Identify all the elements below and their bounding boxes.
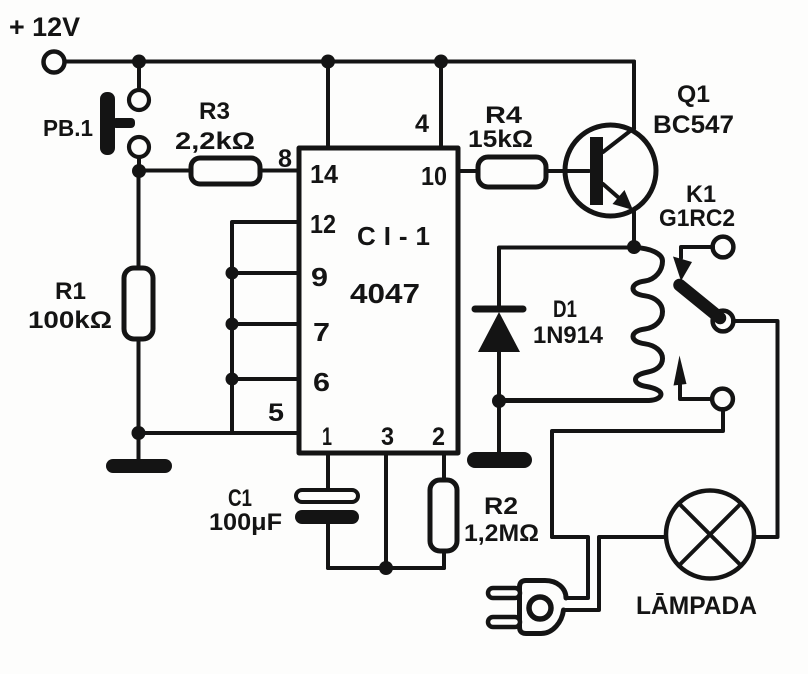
ground diode — [467, 401, 532, 468]
svg-text:7: 7 — [313, 317, 330, 347]
svg-text:R4: R4 — [485, 102, 523, 129]
junction dot bus pin9 — [226, 267, 239, 280]
relay armature — [680, 285, 721, 318]
svg-text:4: 4 — [415, 110, 429, 138]
diode D1 — [475, 248, 604, 401]
junction dot PB.1 bottom / R1 top — [132, 164, 146, 178]
junction dot pin3 bottom — [379, 561, 393, 575]
svg-text:2: 2 — [432, 423, 445, 451]
svg-text:3: 3 — [381, 423, 394, 451]
wire emitter down — [632, 211, 636, 247]
junction dot R1 bottom — [132, 426, 146, 440]
svg-text:9: 9 — [311, 262, 328, 292]
resistor R3 — [139, 98, 299, 184]
junction dot pin4 stub — [434, 55, 448, 69]
wire pin 3 — [384, 455, 388, 568]
relay K1 coil — [499, 181, 735, 401]
svg-text:100kΩ: 100kΩ — [28, 307, 112, 334]
junction dot diode bottom — [492, 394, 506, 408]
wire coil bottom run — [499, 399, 651, 403]
relay common contact (middle) — [713, 311, 734, 332]
wire NO contact to mains left — [552, 409, 723, 537]
svg-text:K1: K1 — [686, 181, 716, 208]
wire top supply rail — [65, 60, 634, 64]
svg-text:10: 10 — [421, 161, 447, 191]
svg-text:5: 5 — [268, 399, 284, 427]
wire lamp left / cable left edge — [552, 537, 588, 598]
svg-text:1: 1 — [322, 423, 332, 451]
wire bottom run — [328, 566, 444, 570]
junction dot PB.1 top — [132, 55, 146, 69]
svg-text:12: 12 — [310, 209, 336, 239]
svg-text:8: 8 — [278, 145, 292, 173]
resistor R1 — [28, 171, 153, 433]
svg-text:1,2MΩ: 1,2MΩ — [464, 520, 539, 547]
wire common contact to lamp right — [733, 321, 778, 537]
op-amp U1: IC CI-1 4047 box — [299, 148, 458, 453]
resistor R4 — [458, 102, 589, 187]
svg-text:4047: 4047 — [350, 278, 420, 309]
svg-text:100μF: 100μF — [209, 509, 282, 536]
svg-text:R3: R3 — [199, 98, 230, 125]
wire collector to rail — [632, 62, 636, 130]
svg-text:6: 6 — [313, 367, 330, 397]
terminal +12V — [44, 52, 65, 73]
wire cable right edge to lamp — [563, 537, 666, 610]
junction dot IC top stub — [321, 55, 335, 69]
svg-text:+ 12V: + 12V — [9, 12, 80, 42]
wire pin5 / ground run — [139, 431, 300, 435]
junction dot emitter node — [627, 240, 641, 254]
capacitor C1 — [209, 455, 359, 568]
relay contact NO (bottom) — [674, 356, 733, 410]
svg-text:R2: R2 — [484, 493, 518, 520]
svg-text:2,2kΩ: 2,2kΩ — [175, 128, 255, 155]
svg-text:1N914: 1N914 — [533, 322, 604, 349]
svg-text:C1: C1 — [228, 485, 252, 512]
svg-text:14: 14 — [310, 159, 339, 189]
svg-text:D1: D1 — [553, 296, 577, 323]
lamp — [636, 491, 757, 621]
wire bus pins 12-9-7-6 — [232, 222, 299, 433]
svg-text:PB.1: PB.1 — [43, 115, 93, 141]
svg-text:15kΩ: 15kΩ — [468, 126, 533, 153]
wire IC top stub — [326, 62, 330, 149]
relay contact NC (top) — [673, 237, 733, 281]
junction dot bus pin6 — [226, 373, 239, 386]
svg-text:G1RC2: G1RC2 — [659, 205, 735, 232]
ground left — [106, 433, 172, 473]
transistor Q1 — [565, 81, 734, 216]
resistor R2 — [430, 455, 539, 568]
svg-text:R1: R1 — [55, 278, 86, 305]
svg-text:Q1: Q1 — [677, 81, 710, 108]
svg-text:BC547: BC547 — [653, 111, 734, 139]
wire diode top to emitter node — [499, 246, 634, 250]
wire pin 4 stub — [439, 62, 443, 149]
plug — [488, 581, 566, 634]
junction dot bus pin7 — [226, 318, 239, 331]
svg-text:LĀMPADA: LĀMPADA — [636, 592, 757, 620]
pushbutton PB.1 — [43, 62, 149, 173]
